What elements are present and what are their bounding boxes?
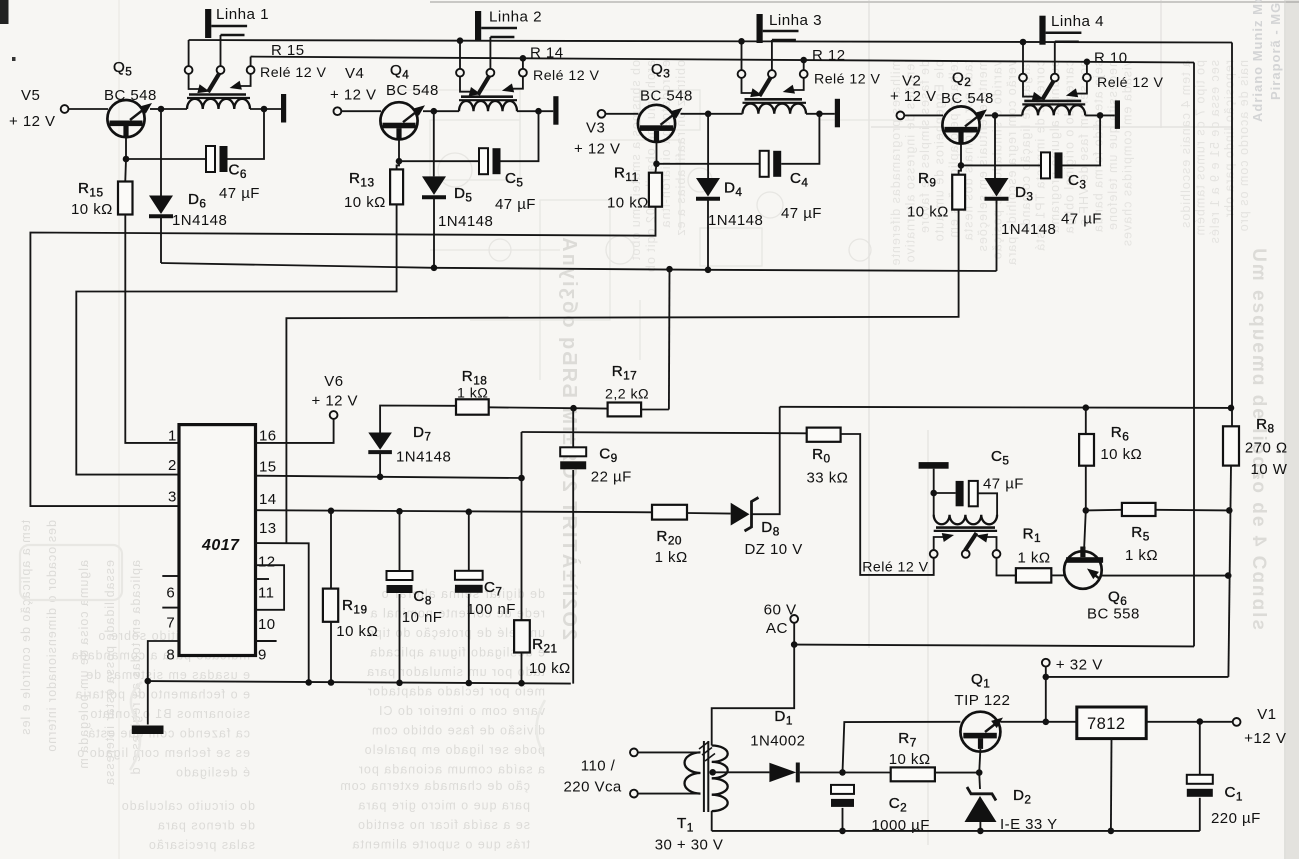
wire: C8 column top bbox=[399, 511, 401, 571]
wire: pin 14 clock row bbox=[256, 510, 653, 512]
terminal 60 V AC bbox=[790, 615, 798, 623]
svg-text:TIP 122: TIP 122 bbox=[954, 692, 1010, 709]
regulator 7812 bbox=[1077, 707, 1146, 739]
capacitor C5 47 uF bbox=[479, 148, 488, 174]
pin 11 stub bbox=[256, 578, 270, 580]
wire: emitter junction to resistor R9 bbox=[959, 165, 961, 174]
capacitor C1 220 uF bbox=[1187, 775, 1213, 784]
node: collector junction Q4 bbox=[431, 108, 438, 115]
relay 3 armature bars bbox=[745, 98, 803, 101]
junction R18-R17 / C9 bbox=[570, 405, 577, 412]
resistor R21 10 k bbox=[514, 620, 530, 652]
svg-text:2,2 kΩ: 2,2 kΩ bbox=[605, 387, 649, 403]
svg-text:6: 6 bbox=[166, 585, 175, 602]
junction R5 / R8 column bbox=[1226, 507, 1233, 514]
svg-text:1N4148: 1N4148 bbox=[172, 212, 227, 229]
svg-text:largas de ligação comande: largas de ligação comande bbox=[1019, 60, 1033, 234]
svg-text:+ 12 V: + 12 V bbox=[574, 141, 620, 158]
resistor R7 10 k bbox=[891, 767, 935, 781]
svg-text:V3: V3 bbox=[586, 120, 605, 137]
svg-text:D6: D6 bbox=[188, 191, 206, 211]
wire: V2 to transistor bbox=[904, 114, 943, 116]
phone line symbol Linha 4 bbox=[1039, 16, 1045, 45]
wire: R15 bottom to 4017 pin 1 bbox=[125, 215, 179, 443]
svg-text:10 kΩ: 10 kΩ bbox=[889, 751, 931, 768]
wire: C2 bottom to ground rail bbox=[842, 808, 844, 831]
wire: C8 bottom bbox=[399, 594, 401, 683]
relay 1 right switch arm bbox=[240, 74, 251, 86]
svg-text:10 kΩ: 10 kΩ bbox=[529, 660, 571, 677]
wire: C2 node riser to Q1 base bbox=[843, 722, 961, 773]
svg-text:slɒnɒƆ 4 ɘb oᵶɒǫil ɘb ɒmɘupƨɘ: slɒnɒƆ 4 ɘb oᵶɒǫil ɘb ɒmɘupƨɘ mU bbox=[1248, 246, 1269, 630]
wire: reset node row to R0 bbox=[522, 432, 807, 433]
terminal V5 +12 V bbox=[61, 105, 69, 113]
svg-text:sec essa de 51 e 9 a 1 relés: sec essa de 51 e 9 a 1 relés bbox=[1208, 60, 1222, 244]
svg-text:BC 558: BC 558 bbox=[1087, 606, 1140, 623]
junction pin14/C8 bbox=[396, 508, 403, 515]
diode D7 1N4148 bbox=[368, 433, 392, 450]
svg-text:carregado o original obliga: carregado o original obliga bbox=[1063, 60, 1077, 234]
wire: R19 bottom bbox=[330, 622, 332, 683]
wire: Q1 internal column to D2 bbox=[979, 749, 980, 773]
junction pin15/D7 bbox=[377, 474, 384, 481]
junction D1/C2 bbox=[839, 769, 846, 776]
wire: top bus A (relay left contacts to R8) bbox=[189, 40, 1232, 43]
capacitor C5 47 uF (timing) bbox=[956, 481, 964, 506]
svg-text:e o fechamento da portaria: e o fechamento da portaria bbox=[75, 688, 250, 702]
wire: junction to diode D6 bbox=[160, 109, 162, 196]
transistor Q6 BC 558 bbox=[1064, 551, 1102, 589]
junction at emitter bbox=[123, 156, 130, 163]
svg-text:divisão de fase obtido com: divisão de fase obtido com bbox=[371, 724, 545, 738]
junction Q6 collector / R5 row bbox=[1083, 507, 1090, 514]
svg-text:BC 548: BC 548 bbox=[941, 90, 994, 107]
wire: relay 1 right contact riser to top bus B bbox=[250, 57, 252, 67]
svg-text:10 kΩ: 10 kΩ bbox=[607, 195, 649, 212]
relay K5 right arm bbox=[986, 537, 997, 550]
svg-text:ção de chamada externa com: ção de chamada externa com bbox=[339, 779, 530, 793]
svg-text:R8: R8 bbox=[1256, 416, 1274, 436]
svg-text:16: 16 bbox=[259, 428, 277, 445]
svg-text:R20: R20 bbox=[656, 528, 682, 548]
line-end bar (relay 3 common) bbox=[835, 99, 840, 128]
wire: emitter junction to resistor R13 bbox=[397, 161, 399, 169]
line-end bar (relay K5) bbox=[919, 462, 949, 469]
wire: Q5 collector to junction bbox=[150, 108, 161, 110]
wire: emitter junction to capacitor C4 bbox=[657, 163, 760, 165]
wire: Linha 2 line conductor to relay centre contact bbox=[489, 37, 491, 69]
relay 1 armature bars bbox=[189, 93, 246, 96]
resistor R6 10 k bbox=[1079, 434, 1094, 466]
junction at coil right bbox=[816, 111, 823, 118]
svg-text:R17: R17 bbox=[612, 363, 638, 383]
relay 1 left switch arm bbox=[189, 74, 200, 89]
pin 7 stub bbox=[162, 607, 177, 609]
wire: ground bus under 4017 bbox=[148, 681, 571, 684]
wire: relay 2 left contact riser to top bus A bbox=[459, 41, 461, 69]
svg-text:R 12: R 12 bbox=[812, 47, 846, 64]
wire: riser from diode bus down to R17 bbox=[668, 269, 671, 409]
wire: R21 bottom bbox=[521, 653, 523, 684]
wire: bus B drop on right side to 60 V rail bbox=[1193, 63, 1195, 647]
svg-text:7812: 7812 bbox=[1087, 715, 1126, 733]
wire: Q3 emitter down bbox=[656, 142, 658, 164]
wire: emitter junction to capacitor C6 bbox=[126, 158, 206, 160]
svg-text:D2: D2 bbox=[1013, 787, 1031, 807]
svg-text:R1: R1 bbox=[1023, 525, 1041, 545]
wire: Q6 emitter to R8 column bbox=[1102, 575, 1229, 577]
svg-text:11: 11 bbox=[258, 585, 274, 602]
wire: relay 2 right contact riser to top bus B bbox=[522, 58, 524, 69]
svg-text:+ 12 V: + 12 V bbox=[330, 87, 376, 104]
wire: secondary bottom to ground rail bbox=[711, 811, 713, 831]
svg-text:se a saída ficar no sentido: se a saída ficar no sentido bbox=[357, 818, 530, 832]
resistor R8 270 ohm 10 W bbox=[1223, 426, 1239, 465]
resistor R11 10 k bbox=[649, 173, 662, 207]
svg-text:3: 3 bbox=[168, 489, 177, 506]
node: collector junction Q5 bbox=[158, 106, 165, 113]
svg-text:Relé 12 V: Relé 12 V bbox=[533, 68, 599, 84]
svg-text:R7: R7 bbox=[898, 730, 916, 750]
wire: relay 1 left contact riser to top bus A bbox=[188, 40, 190, 66]
transformer T1 primary bbox=[685, 752, 701, 793]
svg-text:de drenos para: de drenos para bbox=[157, 819, 255, 833]
diode D4 1N4148 bbox=[696, 178, 720, 197]
wire: Linha 1 line conductor to relay centre contact bbox=[220, 35, 222, 66]
junction gnd/C8 bbox=[396, 680, 403, 687]
svg-text:C1: C1 bbox=[1225, 784, 1243, 804]
relay 3 contacts bbox=[738, 70, 746, 78]
svg-text:47 µF: 47 µF bbox=[1061, 211, 1102, 228]
svg-text:Relé 12 V: Relé 12 V bbox=[1097, 75, 1163, 91]
wire: emitter junction to resistor R11 bbox=[655, 164, 656, 173]
wire: R1 to Q6 base bbox=[1051, 574, 1064, 576]
node: collector junction Q3 bbox=[705, 111, 712, 118]
wire: Q6 collector column bbox=[1084, 510, 1086, 551]
diode D5 1N4148 bbox=[422, 176, 446, 195]
svg-text:1 kΩ: 1 kΩ bbox=[1018, 550, 1051, 567]
junction diode bus / D5 bbox=[431, 265, 438, 272]
junction gnd/R19 bbox=[328, 679, 335, 686]
svg-text:33 kΩ: 33 kΩ bbox=[807, 470, 849, 487]
svg-text:C4: C4 bbox=[790, 170, 808, 190]
junction on bus B at stage 4 bbox=[1084, 59, 1091, 66]
wire: D2 top lead bbox=[978, 773, 981, 789]
svg-text:C2: C2 bbox=[889, 795, 907, 815]
wire: relay 3 left contact riser to top bus A bbox=[741, 41, 743, 70]
wire: primary leads bbox=[638, 751, 701, 753]
svg-text:é desligado: é desligado bbox=[175, 766, 250, 780]
junction row/R6 bbox=[1083, 404, 1090, 411]
resistor R13 10 k bbox=[390, 169, 403, 204]
wire: V4 to transistor bbox=[341, 110, 381, 112]
svg-text:Piraporã - MG: Piraporã - MG bbox=[1268, 2, 1283, 100]
wire: diode D6 cathode to diode bus bbox=[160, 217, 162, 264]
wire: Q3 collector to junction bbox=[681, 113, 709, 115]
svg-text:BC 548: BC 548 bbox=[386, 82, 439, 99]
relay 4 contacts bbox=[1019, 74, 1027, 82]
svg-text:mento eventuais em seleções: mento eventuais em seleções bbox=[976, 60, 990, 252]
relay 2 contacts bbox=[456, 69, 464, 77]
wire: R8 column corner to +32V node bbox=[1046, 676, 1229, 678]
IC U1 4017 body bbox=[179, 425, 256, 656]
wire: R13 bottom to 4017 pin 2 bbox=[76, 204, 396, 474]
wire: coil 4 leads bbox=[995, 114, 1022, 116]
svg-text:AC: AC bbox=[766, 620, 788, 637]
svg-text:V2: V2 bbox=[902, 73, 921, 90]
wire: R8 column down bbox=[1228, 466, 1231, 677]
wire: R5 row bbox=[1086, 509, 1122, 512]
svg-text:C9: C9 bbox=[599, 445, 617, 465]
junction at coil right bbox=[535, 108, 542, 115]
svg-text:tado por um simulador para: tado por um simulador para bbox=[366, 665, 545, 679]
wire: pin 12 to pin 10 link bbox=[256, 565, 285, 610]
phone line symbol Linha 3 bbox=[757, 14, 763, 43]
junction 60V node bbox=[791, 641, 798, 648]
terminal V4 +12 V bbox=[334, 107, 342, 115]
relay 3 left switch arm bbox=[742, 78, 753, 93]
transistor Q4 BC 548 bbox=[380, 102, 417, 139]
wire: R5 to R8 column bbox=[1156, 509, 1230, 512]
wire: Q1 emitter to 7812 bbox=[1000, 721, 1076, 723]
wire: diode bus D6-D5-D4-D3 bbox=[161, 263, 997, 271]
svg-text:10 kΩ: 10 kΩ bbox=[71, 201, 113, 218]
svg-text:14: 14 bbox=[259, 491, 277, 508]
junction gnd/pin13 bbox=[305, 679, 312, 686]
svg-text:1N4148: 1N4148 bbox=[396, 449, 451, 466]
svg-text:4017: 4017 bbox=[201, 537, 240, 554]
svg-text:C7: C7 bbox=[484, 579, 502, 599]
wire: Linha 4 line conductor to relay centre contact bbox=[1054, 42, 1056, 74]
wire: R9 bottom to 4017 pin 13 bbox=[286, 210, 958, 544]
svg-text:C6: C6 bbox=[229, 162, 247, 182]
phone line symbol Linha 1 bbox=[205, 9, 211, 38]
relay 2 moving contact bbox=[478, 76, 490, 95]
junction pin14/C7 bbox=[466, 509, 473, 516]
svg-text:trás que o suporte alimenta: trás que o suporte alimenta bbox=[352, 838, 530, 852]
svg-text:BC 548: BC 548 bbox=[104, 87, 157, 104]
wire: D7 anode riser bbox=[379, 453, 381, 477]
wire: R11 bottom to 4017 pin 3 bbox=[30, 207, 655, 506]
svg-text:po tipo 7 os rumos também: po tipo 7 os rumos também bbox=[1194, 60, 1208, 236]
resistor R15 10 k bbox=[118, 182, 133, 215]
svg-text:10 W: 10 W bbox=[1251, 461, 1288, 478]
wire: D1 to C2/R7 node bbox=[800, 771, 891, 773]
svg-text:13: 13 bbox=[259, 520, 277, 537]
zener diode D2 I-E 33 Y bbox=[967, 787, 996, 801]
capacitor C8 10 nF bbox=[387, 571, 413, 580]
wire: R20 to D8 bbox=[687, 512, 731, 515]
svg-text:V4: V4 bbox=[345, 65, 364, 82]
wire: C1 top lead bbox=[1199, 722, 1201, 775]
wire: capacitor C3 to coil right bbox=[1063, 115, 1101, 165]
svg-text:rede de corrente nominal a: rede de corrente nominal a bbox=[370, 607, 545, 621]
junction at emitter bbox=[396, 158, 403, 165]
relay 3 moving contact bbox=[759, 77, 771, 96]
wire: relay 4 left contact riser to top bus A bbox=[1022, 42, 1024, 74]
wire: C1 bottom to ground rail bbox=[1199, 798, 1201, 831]
terminal V2 +12 V bbox=[897, 112, 905, 120]
wire: 60 V rail bbox=[794, 645, 1194, 647]
svg-text:Adriano Muniz Moura: Adriano Muniz Moura bbox=[1250, 0, 1265, 122]
wire: R21 column from R0 row bbox=[521, 432, 523, 620]
svg-text:essabilidade possa estar inter: essabilidade possa estar interessa bbox=[103, 560, 117, 786]
svg-text:220 µF: 220 µF bbox=[1211, 810, 1261, 827]
junction gnd/C7 bbox=[466, 680, 473, 687]
line-end bar (relay 2 common) bbox=[553, 96, 558, 125]
svg-text:12: 12 bbox=[258, 554, 276, 571]
svg-text:2O2Iì±ÀTIЯT 2OЯ±IM БЯБq oбʒiуп: 2O2Iì±ÀTIЯT 2OЯ±IM БЯБq oбʒiупА bbox=[558, 235, 581, 640]
junction 7812/ground rail bbox=[1108, 828, 1115, 835]
wire: diode D5 cathode to diode bus bbox=[433, 197, 435, 267]
wire: V3 to transistor bbox=[606, 113, 639, 115]
svg-text:1 kΩ: 1 kΩ bbox=[457, 386, 488, 402]
wire: bus A drop on right side to R8 bbox=[1231, 43, 1233, 427]
svg-text:R0: R0 bbox=[812, 446, 830, 466]
svg-text:Q4: Q4 bbox=[390, 62, 409, 82]
terminal V3 +12 V bbox=[598, 110, 606, 118]
wire: Q2 collector to junction bbox=[985, 114, 995, 116]
relay 2 armature bars bbox=[461, 95, 513, 98]
wire: K5 bar to coil bbox=[933, 469, 935, 515]
terminal V1 +12 V bbox=[1233, 718, 1241, 726]
junction pin8/ground bus bbox=[145, 678, 152, 685]
junction at coil right bbox=[1097, 112, 1104, 119]
resistor R1 1 k bbox=[1016, 568, 1051, 582]
svg-text:1N4148: 1N4148 bbox=[708, 212, 763, 229]
svg-text:C5: C5 bbox=[505, 170, 523, 190]
wire: C9 bottom to ground bus bbox=[572, 470, 574, 684]
svg-text:10 kΩ: 10 kΩ bbox=[907, 204, 949, 221]
svg-text:22 µF: 22 µF bbox=[591, 469, 632, 486]
relay 1 coil bbox=[187, 99, 250, 109]
junction row/R8 column bbox=[1228, 405, 1235, 412]
junction at emitter bbox=[958, 162, 965, 169]
svg-text:obitnez on raafil abias a ez: obitnez on raafil abias a ez bbox=[674, 60, 688, 237]
wire: R17 right lead up to diode bus bbox=[641, 409, 669, 411]
wire: pin 15 row to reset node bbox=[256, 476, 522, 478]
wire: V5 to transistor bbox=[69, 108, 108, 110]
svg-text:10 kΩ: 10 kΩ bbox=[1100, 446, 1142, 463]
svg-text:salas precisarão: salas precisarão bbox=[148, 838, 255, 852]
svg-text:T1: T1 bbox=[677, 815, 694, 835]
wire: Q5 emitter down bbox=[125, 137, 127, 159]
junction pin15/R21 column bbox=[518, 475, 525, 482]
relay 3 right switch arm bbox=[793, 78, 804, 90]
relay K5 coil bbox=[934, 515, 997, 525]
svg-text:270 Ω: 270 Ω bbox=[1245, 440, 1288, 457]
svg-text:DZ 10 V: DZ 10 V bbox=[745, 541, 803, 558]
junction on bus B at stage 3 bbox=[800, 57, 807, 64]
resistor R5 1 k bbox=[1122, 503, 1156, 516]
svg-text:7: 7 bbox=[166, 615, 175, 632]
svg-text:9: 9 bbox=[258, 647, 267, 664]
wire: pin14 row to R20 bbox=[651, 511, 653, 513]
svg-text:47 µF: 47 µF bbox=[219, 185, 260, 202]
junction diode bus / R17 riser bbox=[666, 266, 673, 273]
wire: R18 to R17 bbox=[489, 407, 608, 408]
resistor R17 2,2 k bbox=[608, 403, 642, 417]
relay 2 left switch arm bbox=[460, 76, 471, 91]
junction on bus B at stage 2 bbox=[520, 55, 527, 62]
svg-text:R19: R19 bbox=[342, 597, 368, 617]
wire: emitter junction to capacitor C5 bbox=[399, 160, 479, 162]
wire: capacitor C4 to coil right bbox=[781, 114, 819, 164]
relay 3 coil bbox=[743, 104, 807, 114]
resistor R9 10 k bbox=[952, 175, 965, 210]
wire: junction to diode D5 bbox=[433, 111, 435, 176]
svg-text:10 kΩ: 10 kΩ bbox=[344, 194, 386, 211]
junction 7812 input bbox=[1043, 719, 1050, 726]
line-end bar (relay 4 common) bbox=[1115, 100, 1120, 128]
phone line symbol Linha 2 bbox=[475, 11, 481, 40]
svg-text:10 kΩ: 10 kΩ bbox=[336, 623, 378, 640]
wire: capacitor C6 to coil right bbox=[228, 109, 265, 159]
junction C2/ground rail bbox=[839, 828, 846, 835]
transistor Q2 BC 548 bbox=[942, 106, 979, 143]
line-end bar (relay 1 common) bbox=[281, 94, 286, 123]
junction output/C1 bbox=[1197, 718, 1204, 725]
svg-text:Linha 2: Linha 2 bbox=[489, 9, 542, 26]
svg-text:2: 2 bbox=[168, 457, 177, 474]
wire: +32V column to 7812 input bbox=[1045, 677, 1047, 722]
relay K5 moving contact bbox=[965, 533, 977, 551]
wire: 60V terminal stub bbox=[793, 623, 795, 645]
zener diode D8 DZ 10 V bbox=[731, 503, 750, 526]
relay K5 contacts bbox=[930, 550, 938, 558]
capacitor C4 47 uF bbox=[760, 151, 769, 177]
relay 4 armature bars bbox=[1024, 100, 1081, 103]
wire: C9 top lead bbox=[572, 408, 574, 447]
relay 2 coil bbox=[459, 101, 517, 111]
wire: D2 bottom to ground rail bbox=[979, 822, 981, 831]
svg-text:R6: R6 bbox=[1111, 424, 1129, 444]
pin 9 stub bbox=[256, 640, 277, 642]
ground symbol bbox=[132, 726, 164, 735]
svg-text:meio por teclado adaptador: meio por teclado adaptador bbox=[367, 685, 545, 699]
diode D6 1N4148 bbox=[149, 196, 173, 215]
capacitor C7 100 nF bbox=[455, 571, 483, 580]
transistor Q1 TIP 122 bbox=[960, 712, 1000, 752]
svg-text:Linha 4: Linha 4 bbox=[1051, 13, 1104, 30]
svg-text:D7: D7 bbox=[413, 424, 431, 444]
wire: 60V node down to transformer secondary bbox=[712, 645, 795, 746]
wire: Linha 3 line conductor to relay centre contact bbox=[771, 40, 773, 70]
svg-text:+ 32 V: + 32 V bbox=[1056, 656, 1103, 673]
wire: Q2 emitter down bbox=[960, 143, 962, 165]
wire: top bus B (relay right contacts) bbox=[251, 57, 1194, 63]
svg-text:47 µF: 47 µF bbox=[983, 476, 1024, 493]
svg-text:pode ser ligado em paralelo: pode ser ligado em paralelo bbox=[364, 743, 545, 757]
junction at emitter bbox=[653, 161, 660, 168]
svg-text:BC 548: BC 548 bbox=[640, 88, 693, 105]
svg-text:a tem 4 canais escolhidos: a tem 4 canais escolhidos bbox=[1179, 60, 1193, 229]
svg-text:D5: D5 bbox=[454, 185, 472, 205]
svg-text:reposição lindo para obr: reposição lindo para obr bbox=[1223, 60, 1237, 218]
capacitor C6 47 uF bbox=[206, 146, 215, 172]
relay 1 contacts bbox=[185, 66, 193, 74]
svg-text:R15: R15 bbox=[78, 180, 104, 200]
relay 2 right switch arm bbox=[512, 76, 523, 88]
svg-text:47 µF: 47 µF bbox=[781, 205, 822, 222]
relay 4 left switch arm bbox=[1023, 81, 1034, 96]
transformer T1 core bbox=[703, 741, 705, 812]
svg-text:Relé 12 V: Relé 12 V bbox=[862, 560, 928, 576]
resistor R18 1 k bbox=[456, 399, 489, 414]
wire: C5 to coil right bbox=[978, 493, 997, 515]
junction diode bus / D4 bbox=[705, 267, 712, 274]
wire: capacitor C5 to coil right bbox=[501, 111, 539, 161]
